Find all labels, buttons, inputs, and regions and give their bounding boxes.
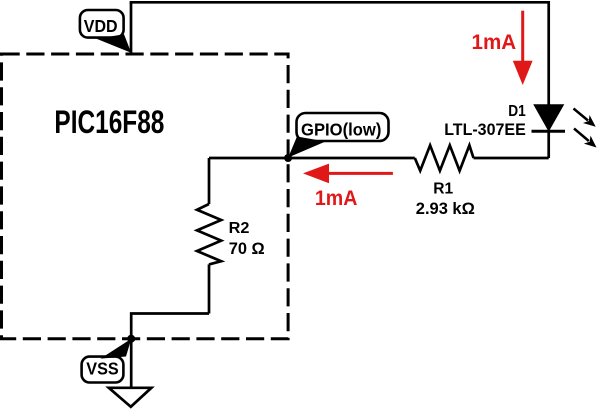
LED emission arrow 1 xyxy=(574,109,599,131)
ground xyxy=(109,388,152,407)
VSS callout xyxy=(82,339,132,383)
svg-text:1mA: 1mA xyxy=(315,186,358,210)
resistor R1 xyxy=(415,145,474,170)
wire right rail to LED xyxy=(547,1,550,106)
node GPIO junction dot xyxy=(284,154,292,162)
current arrow 1mA down (into LED) xyxy=(472,11,533,85)
svg-text:2.93 kΩ: 2.93 kΩ xyxy=(416,200,475,218)
svg-text:R2: R2 xyxy=(229,220,250,237)
svg-text:VDD: VDD xyxy=(84,17,118,36)
wire R1 to LED segment xyxy=(474,131,549,158)
svg-text:D1: D1 xyxy=(508,103,526,120)
svg-text:1mA: 1mA xyxy=(472,30,517,54)
svg-text:R1: R1 xyxy=(433,181,453,198)
svg-text:70 Ω: 70 Ω xyxy=(229,239,265,258)
LED emission arrow 2 xyxy=(574,129,600,152)
LED D1 xyxy=(532,105,566,131)
GPIO(low) callout xyxy=(288,113,388,158)
wire R2 leads xyxy=(208,158,211,314)
svg-text:PIC16F88: PIC16F88 xyxy=(54,104,164,140)
VDD callout xyxy=(80,10,131,53)
resistor R2 xyxy=(197,204,221,264)
wire R2 to VSS xyxy=(131,314,209,388)
wire VDD drop xyxy=(130,2,133,54)
wire GPIO net left segment xyxy=(209,157,415,160)
wire top rail xyxy=(130,1,549,4)
PIC16F88 dashed box xyxy=(2,54,289,339)
svg-text:GPIO(low): GPIO(low) xyxy=(301,119,381,139)
svg-text:LTL-307EE: LTL-307EE xyxy=(444,120,526,139)
current arrow 1mA left (out of GPIO) xyxy=(303,164,393,210)
svg-text:VSS: VSS xyxy=(86,360,119,379)
node VSS junction dot xyxy=(127,335,135,343)
